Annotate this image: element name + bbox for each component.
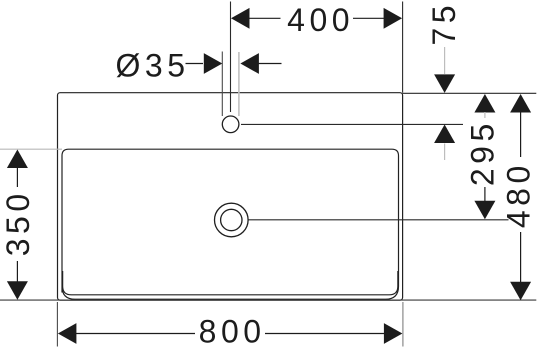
svg-text:400: 400: [287, 2, 354, 38]
basin bowl outer rim: [62, 149, 399, 299]
svg-text:295: 295: [465, 119, 501, 186]
svg-text:Ø35: Ø35: [116, 47, 190, 83]
diameter 35 extension line right (gray): [238, 52, 240, 116]
dimension 350 upper arrow (points up at bowl rim): [7, 150, 28, 169]
bottom edge extension line full width: [0, 299, 536, 301]
diameter 35 left arrow (points right at hole): [204, 53, 223, 74]
dimension 400 line: [248, 17, 386, 19]
dimension 75 label: [426, 1, 462, 46]
dimension 480 line lower segment: [520, 232, 522, 282]
dimension 350 line upper segment: [16, 168, 18, 188]
dimension 800 line: [76, 333, 385, 335]
diameter 35 right arrow tail: [258, 63, 282, 65]
dimension 400 extension line left (from faucet hole up): [230, 2, 232, 113]
dimension 295 line lower segment: [484, 187, 486, 201]
dimension 400 left arrow: [231, 8, 250, 29]
diameter 35 extension line left: [221, 52, 223, 117]
gray extension line of bowl rim to left edge: [0, 148, 62, 150]
faucet hole circle: [222, 116, 239, 133]
dimension 75 lower arrow (points up at hole centerline): [434, 125, 455, 144]
dimension 800 left arrow: [58, 323, 77, 344]
dimension 400 right arrow: [384, 8, 403, 29]
dimension 350 line lower segment: [16, 261, 18, 282]
washbasin outer ceramic outline: [58, 93, 403, 300]
dimension 480 label: [501, 161, 537, 228]
dimension 295 line upper segment: [484, 112, 486, 118]
svg-text:480: 480: [501, 161, 537, 228]
svg-text:350: 350: [0, 189, 36, 256]
drain outer circle: [215, 203, 249, 237]
dimension 480 upper arrow (points up at rear edge): [510, 94, 531, 113]
dimension 75 lower arrow tail: [444, 144, 446, 161]
dimension 800 extension line left: [56, 302, 58, 347]
diameter 35 right arrow (points left at hole): [240, 53, 259, 74]
dimension 400 extension line right (rect right edge up): [402, 2, 404, 93]
svg-text:800: 800: [199, 314, 266, 347]
faucet hole centerline to the right: [241, 123, 463, 125]
dimension 295 label: [465, 119, 501, 186]
dimension 350 lower arrow (points down at front edge): [7, 281, 28, 300]
drain inner circle: [221, 209, 242, 230]
dimension 800 extension line right: [402, 302, 404, 347]
drain centerline to the right: [248, 219, 508, 221]
basin bowl inner floor line: [63, 271, 398, 295]
top edge extension line to the right: [403, 92, 537, 94]
svg-text:75: 75: [426, 1, 462, 46]
dimension 480 line upper segment: [520, 112, 522, 157]
dimension 295 lower arrow (points down at drain centerline): [474, 201, 495, 220]
diameter 35 leader line from text: [186, 63, 204, 65]
dimension 295 upper arrow (points up at rear edge): [474, 94, 495, 113]
dimension 480 lower arrow (points down at front edge): [510, 282, 531, 301]
dimension 75 leader from label: [444, 47, 446, 74]
dimension 350 label: [0, 189, 36, 256]
dimension 75 upper arrow (points down at rear edge): [434, 74, 455, 93]
dimension 800 right arrow: [384, 323, 403, 344]
